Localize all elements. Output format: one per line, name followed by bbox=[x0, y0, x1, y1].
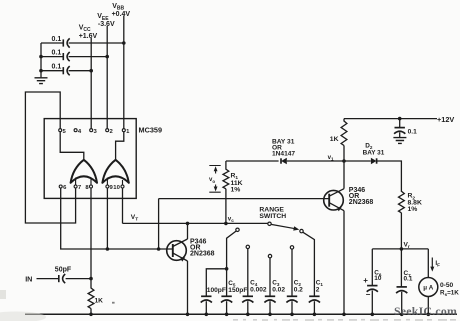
wire contact 5 to C1 bbox=[303, 232, 315, 296]
switch contact 5 bbox=[300, 229, 303, 232]
label C2 0.2 bbox=[294, 279, 303, 293]
svg-text:1K: 1K bbox=[330, 136, 339, 143]
capacitor C3 0.02 bbox=[264, 296, 275, 316]
svg-text:1%: 1% bbox=[408, 206, 418, 213]
wire Q1 emitter to ground rail bbox=[186, 261, 190, 316]
wire 50pF to junction bbox=[66, 277, 93, 281]
capacitor C6 10 (electrolytic) bbox=[367, 249, 378, 316]
pin 8 bbox=[85, 185, 92, 191]
svg-text:0.1: 0.1 bbox=[408, 128, 417, 135]
node vc bbox=[228, 216, 234, 224]
wire bypass row 2 bbox=[39, 55, 109, 59]
svg-text:2N2368: 2N2368 bbox=[190, 251, 215, 258]
capacitor 0.1 (rail bypass) bbox=[394, 117, 417, 138]
scan speck bbox=[112, 302, 115, 304]
svg-text:0.02: 0.02 bbox=[272, 286, 285, 293]
wire VEE bus bbox=[106, 26, 108, 129]
label VCC +1.6V bbox=[79, 25, 98, 40]
svg-text:2: 2 bbox=[316, 286, 320, 293]
node Vr bbox=[400, 241, 410, 250]
label C5 150pF bbox=[228, 280, 247, 294]
svg-text:+1.6V: +1.6V bbox=[79, 33, 98, 40]
pin 3 bbox=[90, 129, 98, 135]
pin 4 bbox=[74, 129, 82, 135]
svg-text:0.2: 0.2 bbox=[294, 286, 303, 293]
wire Vr bar bbox=[372, 248, 428, 250]
wire Q1 collector to VT bbox=[186, 222, 190, 239]
svg-text:1%: 1% bbox=[231, 186, 241, 193]
capacitor C4 0.002 bbox=[242, 296, 253, 316]
pin 6 bbox=[59, 185, 67, 191]
pin 5 bbox=[59, 129, 67, 135]
svg-text:+12V: +12V bbox=[437, 115, 454, 124]
wire Q2 collector to v1 bbox=[343, 161, 345, 189]
svg-text:BAY 31: BAY 31 bbox=[363, 149, 385, 156]
wire gate B input stubs bbox=[107, 178, 122, 186]
marker vo extent arrows bbox=[209, 166, 220, 193]
pin 7 bbox=[74, 185, 82, 191]
label R2 8.8K 1% bbox=[408, 193, 422, 213]
label MC359 bbox=[139, 126, 163, 135]
wire Q2 emitter to ground rail bbox=[342, 211, 346, 316]
wire vc node riser bbox=[224, 161, 228, 225]
svg-text:100pF: 100pF bbox=[207, 287, 226, 294]
label C4 0.002 bbox=[250, 279, 267, 293]
label 0-50 Rs=1K bbox=[440, 282, 459, 297]
capacitor 0.1 (VBB bypass) bbox=[52, 36, 70, 47]
switch contact 3 bbox=[268, 254, 271, 257]
wire pin 9 down bbox=[106, 188, 110, 251]
ground (bypass block) bbox=[35, 78, 48, 84]
pin 10 bbox=[113, 185, 124, 191]
resistor R1 11K 1% bbox=[223, 169, 229, 189]
capacitor 0.1 (VCC bypass) bbox=[52, 64, 70, 76]
marker IF arrow bbox=[430, 258, 440, 272]
label R1 11K 1% bbox=[231, 172, 243, 193]
wire IN lead bbox=[37, 278, 59, 280]
wire VT line bbox=[123, 222, 268, 224]
resistor 1K (pull-up) bbox=[341, 119, 347, 161]
watermark SeekIC.com bbox=[394, 304, 457, 318]
switch contact 1 bbox=[236, 228, 239, 231]
IC U1 MC359 box bbox=[44, 119, 136, 199]
label 100pF bbox=[207, 287, 226, 294]
label VBB +0.4V bbox=[112, 3, 131, 18]
svg-text:1K: 1K bbox=[95, 298, 104, 305]
switch contact 4 bbox=[290, 246, 293, 249]
label C7 0.1 bbox=[404, 270, 413, 282]
svg-text:Rs=1K: Rs=1K bbox=[440, 290, 459, 297]
svg-text:10: 10 bbox=[113, 185, 120, 191]
svg-text:SWITCH: SWITCH bbox=[259, 213, 286, 220]
wire pin5-pin7 feedback loop bbox=[25, 92, 75, 223]
pin 9 bbox=[106, 185, 114, 191]
svg-text:1N4147: 1N4147 bbox=[272, 151, 295, 158]
svg-text:SeekIC.com: SeekIC.com bbox=[394, 304, 457, 318]
diode D2 BAY 31 bbox=[371, 158, 377, 165]
node VT bbox=[131, 214, 138, 223]
svg-text:0.1: 0.1 bbox=[404, 276, 413, 283]
capacitor 0.1 (VEE bypass) bbox=[52, 50, 70, 62]
wire pin 10 to VT line bbox=[122, 188, 124, 223]
label RANGE SWITCH bbox=[259, 207, 286, 221]
svg-text:150pF: 150pF bbox=[228, 287, 247, 294]
wire Q2 base from switch node bbox=[157, 199, 329, 251]
ground (rail bypass) bbox=[393, 138, 406, 144]
wire VBB bus bbox=[123, 16, 125, 129]
switch contact 2 bbox=[246, 245, 249, 248]
label vo bbox=[209, 176, 215, 184]
svg-text:50pF: 50pF bbox=[55, 266, 72, 273]
label Q1 P346 OR 2N2368 bbox=[190, 239, 215, 258]
wire R1 top to v1 bbox=[226, 160, 344, 162]
OR gate A bbox=[71, 160, 97, 183]
pin 1 bbox=[122, 129, 130, 135]
svg-text:-3.6V: -3.6V bbox=[98, 21, 115, 28]
wire pin 1 to gate B output bbox=[116, 132, 124, 160]
transistor Q1 P346/2N2368 bbox=[167, 239, 188, 262]
OR gate B bbox=[102, 160, 128, 183]
wire bypass row 3 bbox=[39, 69, 93, 73]
svg-text:+: + bbox=[363, 276, 368, 285]
capacitor 50pF bbox=[55, 266, 72, 283]
label IN bbox=[25, 275, 32, 284]
capacitor C5 150pF bbox=[221, 296, 232, 316]
meter M1 uA bbox=[419, 249, 438, 316]
wire contact 3 to C3 bbox=[269, 258, 271, 297]
wire VCC bus bbox=[90, 38, 92, 129]
label D1 BAY 31 OR 1N4147 bbox=[272, 139, 295, 158]
label C6 10 + - bbox=[363, 270, 382, 300]
svg-text:0.1: 0.1 bbox=[52, 64, 62, 71]
wire pin 8 down bbox=[90, 188, 92, 278]
wire +12V rail bbox=[344, 118, 437, 120]
svg-text:0.002: 0.002 bbox=[250, 286, 267, 293]
label D2 BAY 31 bbox=[363, 143, 385, 157]
node v1 bbox=[328, 154, 346, 163]
svg-text:MC359: MC359 bbox=[139, 126, 163, 135]
wire pin 6 to base node bbox=[61, 188, 173, 249]
label +12V bbox=[437, 115, 454, 124]
svg-text:0.1: 0.1 bbox=[52, 36, 62, 43]
diode D1 BAY31/1N4147 bbox=[281, 158, 287, 165]
wire C5 stem bbox=[226, 269, 228, 297]
label C1 2 bbox=[316, 279, 324, 293]
wire junction to 100pF bbox=[206, 269, 226, 297]
label Q2 P346 OR 2N2368 bbox=[349, 187, 374, 206]
resistor R2 8.8K 1% bbox=[399, 191, 405, 249]
wire gate A input stubs bbox=[76, 178, 91, 186]
svg-text:+0.4V: +0.4V bbox=[112, 11, 131, 18]
svg-text:0.1: 0.1 bbox=[52, 50, 62, 57]
transistor Q2 P346/2N2368 bbox=[324, 189, 344, 212]
caption fragment (cut off) bbox=[233, 319, 456, 321]
switch rotor arm bbox=[271, 224, 299, 230]
capacitor 100pF bbox=[201, 296, 212, 316]
wire contact 4 to C2 bbox=[291, 249, 293, 296]
wire bypass row 1 bbox=[41, 41, 126, 45]
capacitor C7 0.1 bbox=[396, 249, 407, 316]
label VEE -3.6V bbox=[97, 13, 115, 28]
svg-text:0-50: 0-50 bbox=[440, 282, 454, 289]
wire v1 to R2 corner bbox=[344, 161, 401, 192]
capacitor C2 0.2 bbox=[286, 296, 297, 316]
svg-text:2N2368: 2N2368 bbox=[349, 199, 374, 206]
pin 2 bbox=[106, 129, 114, 135]
scan smudge bottom-left bbox=[0, 290, 46, 321]
switch rotor contact bbox=[268, 222, 271, 225]
svg-text:IN: IN bbox=[25, 275, 32, 284]
wire ground rail bbox=[25, 313, 457, 315]
svg-text:−: − bbox=[366, 290, 371, 299]
svg-text:μ A: μ A bbox=[423, 285, 434, 292]
capacitor C1 2 bbox=[309, 296, 320, 316]
label 1K (pull-up) bbox=[330, 136, 339, 143]
svg-text:10: 10 bbox=[374, 275, 382, 282]
wire pin 5 to gate A output bbox=[60, 132, 84, 160]
label C3 0.02 bbox=[272, 279, 285, 293]
wire contact 2 to C4 bbox=[247, 249, 249, 297]
wire bypass left bus bbox=[40, 43, 42, 77]
resistor 1K (input) bbox=[88, 279, 103, 317]
wire contact 1 to C5/100pF junction bbox=[225, 231, 236, 271]
